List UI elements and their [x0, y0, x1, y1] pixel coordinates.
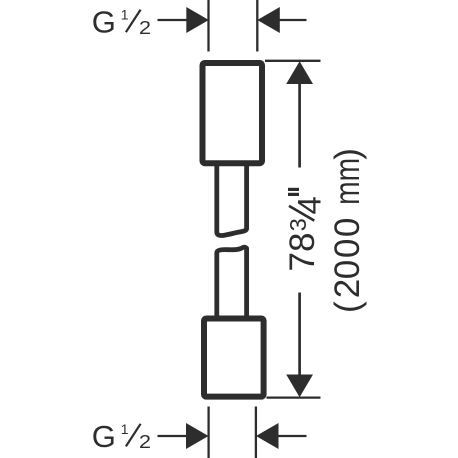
svg-text:1: 1 — [121, 421, 129, 437]
svg-text:0: 0 — [328, 239, 367, 258]
svg-text:G: G — [92, 419, 116, 454]
svg-text:78: 78 — [283, 233, 322, 272]
svg-text:3: 3 — [285, 218, 311, 231]
svg-text:0: 0 — [328, 260, 367, 279]
svg-text:G: G — [92, 5, 116, 40]
svg-text:2: 2 — [139, 431, 151, 452]
svg-text:(: ( — [328, 301, 367, 313]
svg-text:4: 4 — [291, 196, 328, 214]
svg-text:2: 2 — [139, 17, 151, 38]
svg-text:1: 1 — [121, 7, 129, 23]
svg-text:2: 2 — [328, 279, 367, 298]
svg-text:0: 0 — [328, 218, 367, 237]
svg-text:mm: mm — [328, 158, 367, 205]
svg-text:): ) — [328, 148, 367, 160]
